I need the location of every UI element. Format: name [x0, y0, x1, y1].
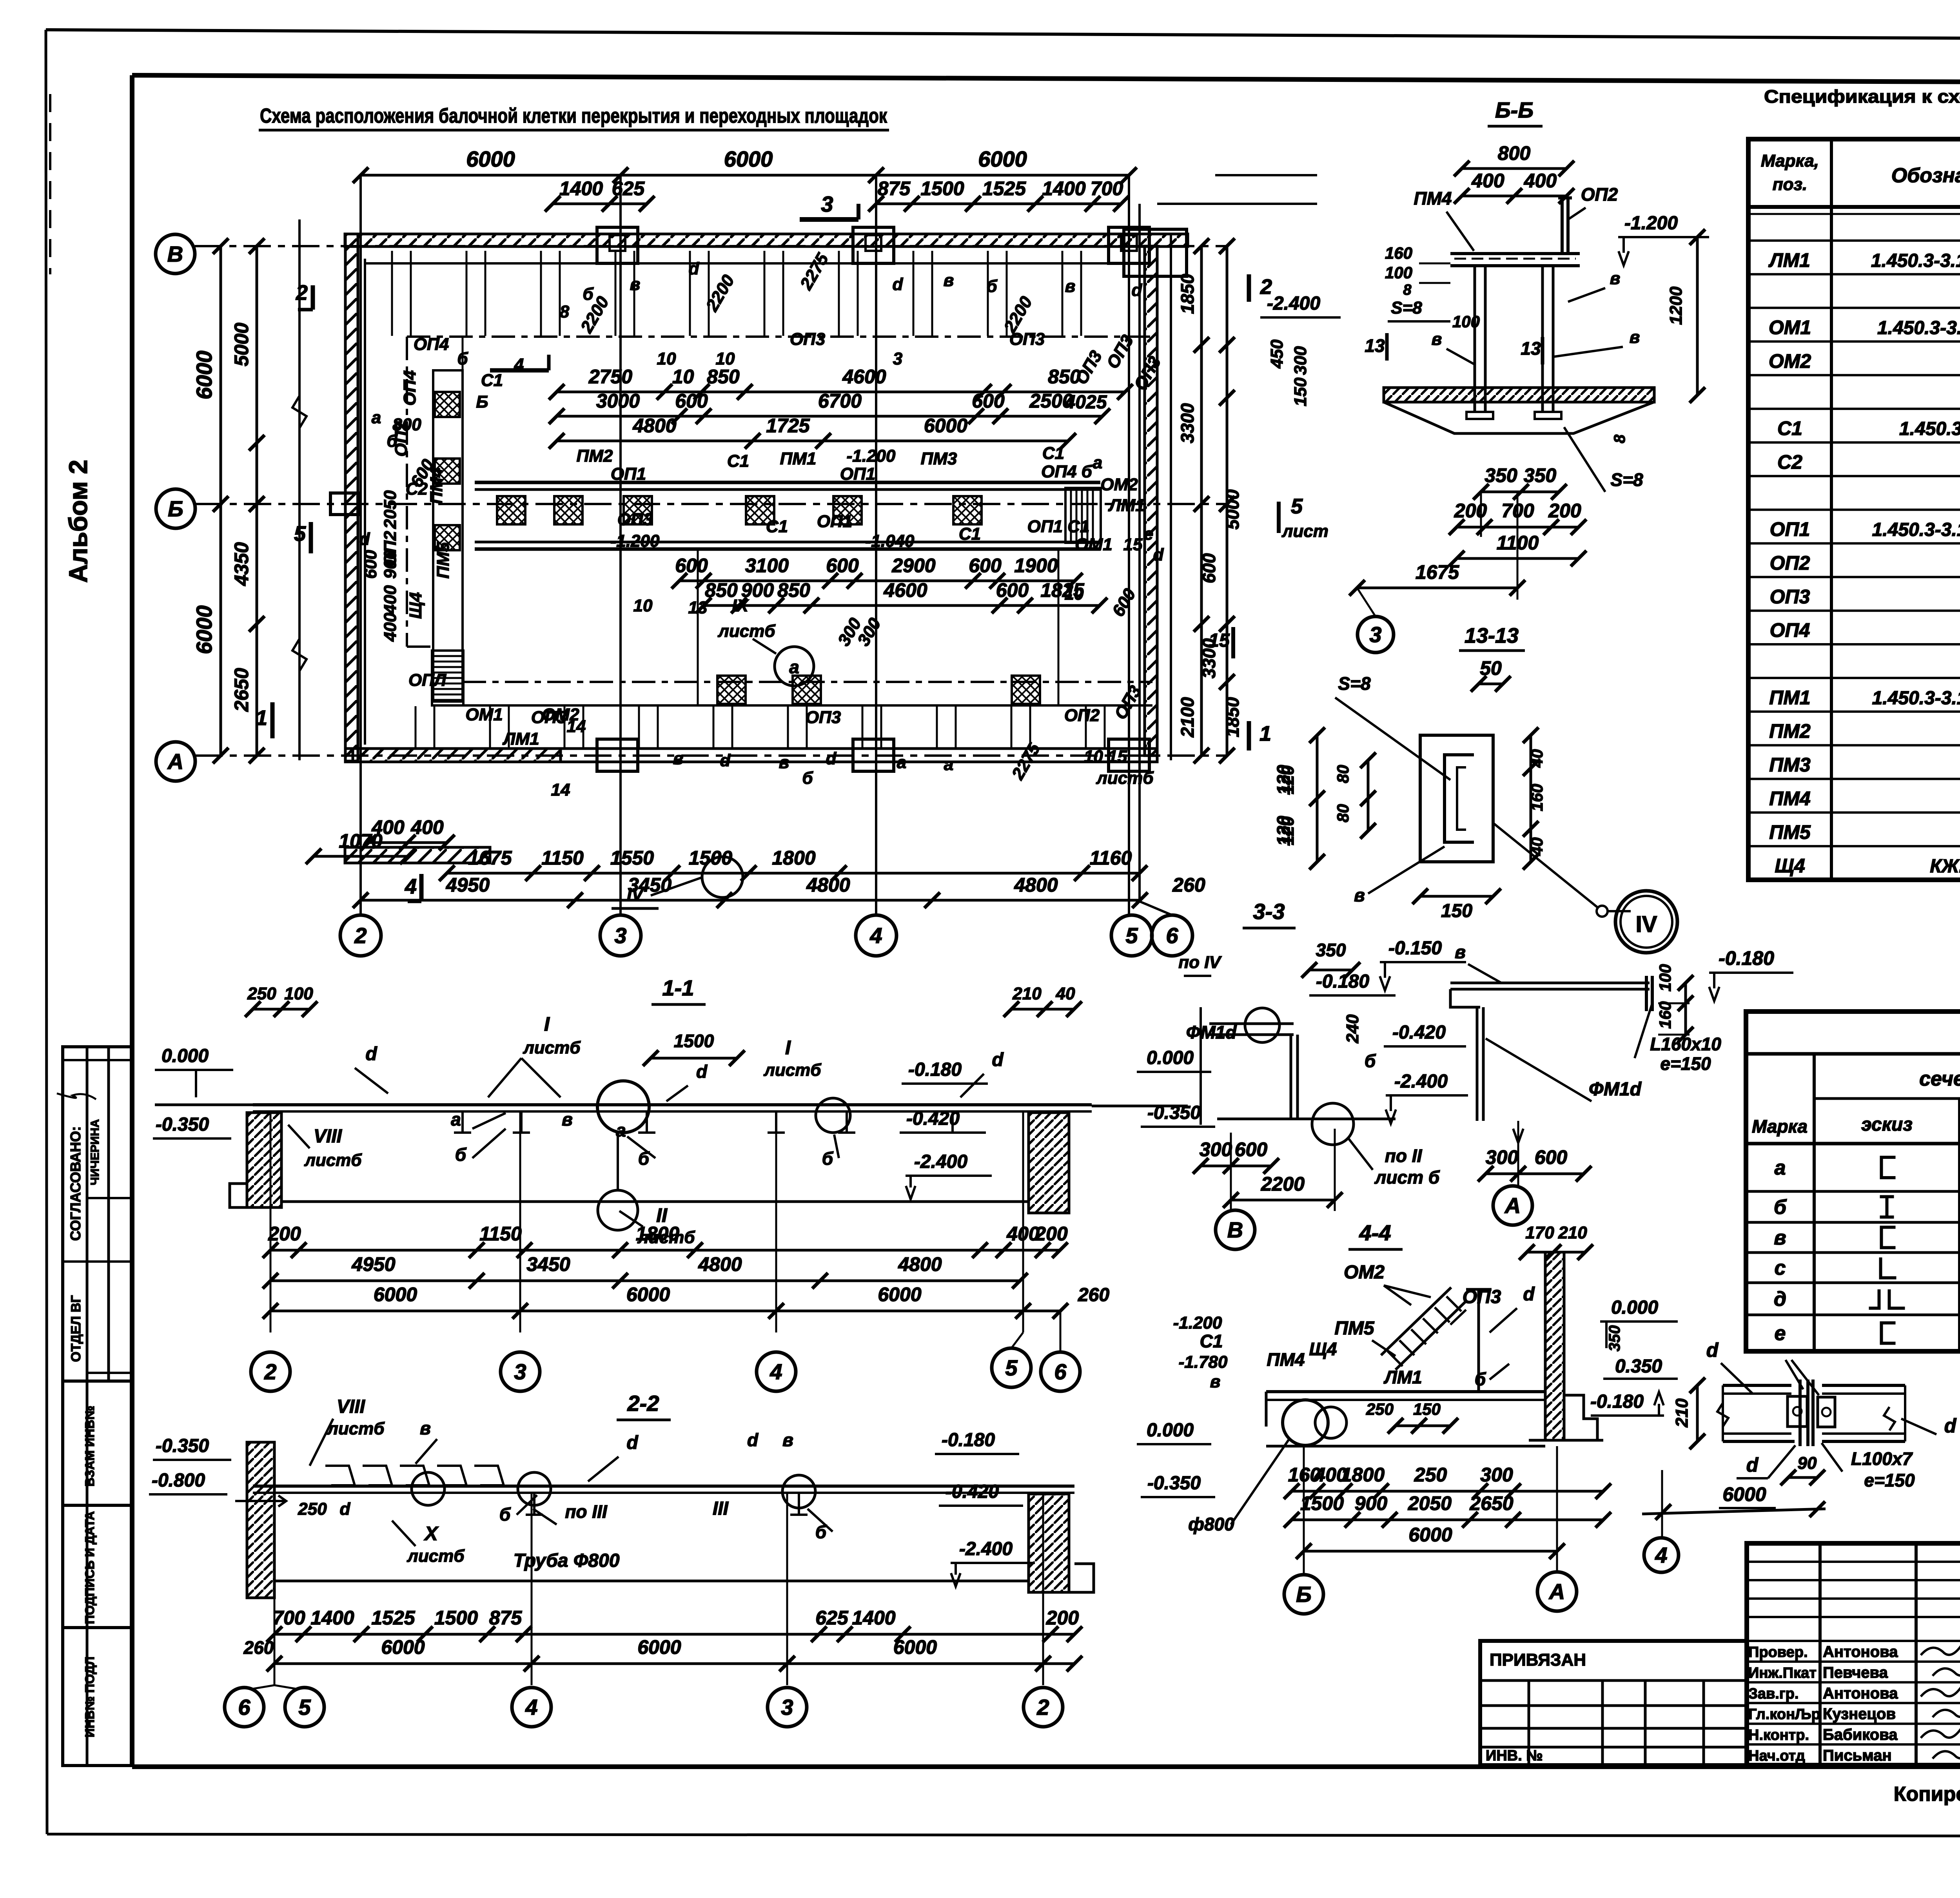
svg-text:5: 5: [1125, 923, 1138, 948]
section 1-1 detail circles: [597, 1081, 649, 1133]
svg-text:6000: 6000: [192, 351, 216, 400]
svg-text:2: 2: [264, 1360, 276, 1384]
svg-text:1.450.3-3.1 2.1.1.0.0-13: 1.450.3-3.1 2.1.1.0.0-13: [1872, 688, 1960, 709]
plan bottom axis circle 5: [1111, 915, 1152, 956]
svg-text:в: в: [1610, 269, 1621, 288]
plan vertical axis 5: [1128, 175, 1130, 915]
svg-text:250: 250: [298, 1499, 327, 1519]
svg-text:е: е: [1144, 524, 1153, 544]
svg-text:е: е: [1775, 1322, 1786, 1345]
detail IV circle: [1615, 891, 1677, 953]
svg-text:Марка: Марка: [1752, 1116, 1808, 1137]
svg-text:5: 5: [298, 1695, 311, 1720]
svg-text:150: 150: [1441, 901, 1472, 921]
svg-text:d: d: [689, 259, 700, 278]
plan section mark 4 bottom: [419, 874, 424, 901]
svg-text:1500: 1500: [434, 1607, 478, 1629]
svg-text:4600: 4600: [842, 366, 886, 388]
plan bottom wall: [345, 749, 1157, 762]
svg-text:d: d: [1523, 1284, 1535, 1305]
detail 13-13 dim 50: [1479, 683, 1503, 685]
svg-text:I: I: [544, 1013, 550, 1035]
svg-text:ОМ1: ОМ1: [1769, 317, 1811, 339]
svg-text:-0.180: -0.180: [1316, 971, 1369, 992]
svg-text:Гл.конЉр: Гл.конЉр: [1748, 1706, 1820, 1723]
svg-text:ПМ2: ПМ2: [577, 446, 613, 466]
section B-B axis circle 3: [1357, 616, 1394, 653]
svg-text:600: 600: [972, 390, 1005, 412]
plan inner dim row1: [557, 391, 1125, 393]
svg-text:4350: 4350: [230, 542, 252, 586]
svg-text:Антонова: Антонова: [1823, 1685, 1898, 1702]
svg-text:6000: 6000: [381, 1636, 425, 1658]
svg-text:1400: 1400: [310, 1607, 354, 1629]
svg-text:1.450.3-3.1 4.1.21.0-09: 1.450.3-3.1 4.1.21.0-09: [1877, 318, 1960, 339]
svg-text:6000: 6000: [1408, 1524, 1452, 1546]
svg-text:а: а: [451, 1109, 461, 1129]
svg-text:Копировал: Каршунова.: Копировал: Каршунова.: [1894, 1783, 1960, 1806]
plan left break line: [298, 219, 301, 760]
svg-text:Н.контр.: Н.контр.: [1748, 1727, 1809, 1744]
svg-text:80: 80: [1334, 765, 1352, 783]
svg-text:3: 3: [781, 1695, 793, 1720]
svg-text:6000: 6000: [724, 147, 773, 171]
svg-text:300: 300: [1486, 1146, 1519, 1168]
section B-B posts: [1474, 266, 1476, 412]
svg-text:4800: 4800: [806, 874, 850, 896]
svg-text:600: 600: [675, 390, 708, 412]
svg-text:4950: 4950: [351, 1253, 395, 1275]
svg-text:100: 100: [1656, 964, 1674, 992]
svg-text:120: 120: [1278, 765, 1298, 794]
section B-B dims bottom: [1481, 491, 1559, 493]
svg-text:-0.150: -0.150: [1388, 938, 1442, 959]
svg-text:ОМ1: ОМ1: [1075, 535, 1112, 554]
detail IV leader: [1493, 823, 1597, 907]
svg-text:6: 6: [238, 1695, 250, 1720]
svg-text:в: в: [1432, 330, 1442, 349]
svg-text:13: 13: [1365, 335, 1385, 356]
svg-text:листб: листб: [1096, 769, 1154, 788]
plan bottom strip joists: [415, 706, 417, 748]
section 1-1 axis lines: [270, 1113, 272, 1332]
vedomost table outer: [1746, 1012, 1960, 1351]
plan section mark 5 left: [309, 522, 313, 553]
svg-text:100: 100: [1385, 263, 1412, 282]
svg-text:С1: С1: [1777, 417, 1802, 439]
svg-text:e=150: e=150: [1864, 1470, 1915, 1490]
svg-text:350: 350: [1606, 1325, 1623, 1352]
svg-text:625: 625: [815, 1607, 849, 1629]
svg-text:13: 13: [688, 598, 708, 617]
svg-text:Спецификация к схеме расположе: Спецификация к схеме расположения балочн…: [1764, 86, 1960, 107]
svg-text:1400: 1400: [852, 1607, 895, 1629]
plan bottom chain: [361, 899, 1140, 902]
svg-text:3: 3: [614, 923, 626, 948]
svg-text:а: а: [616, 1120, 626, 1140]
plan left dim col outer: [220, 246, 222, 756]
svg-text:Щ4: Щ4: [1775, 855, 1805, 877]
plan top strip beam line: [365, 262, 1145, 265]
section 2-2 plates: [325, 1466, 355, 1485]
plan inner dim row3: [557, 440, 1068, 442]
plan right dim col: [1200, 246, 1203, 756]
svg-text:ОТДЕЛ ВГ: ОТДЕЛ ВГ: [69, 1295, 83, 1362]
svg-text:S=8: S=8: [1610, 470, 1643, 490]
svg-text:210: 210: [1558, 1223, 1587, 1242]
svg-text:-1.780: -1.780: [1179, 1352, 1228, 1372]
svg-text:в: в: [1065, 277, 1076, 296]
svg-text:ЛМ1: ЛМ1: [502, 729, 539, 749]
plan axis circle B: [156, 489, 195, 528]
section 4-4 post: [1477, 1289, 1480, 1392]
detail III axis 4: [1661, 1470, 1663, 1539]
svg-text:10: 10: [657, 349, 676, 368]
svg-text:0.000: 0.000: [1611, 1297, 1658, 1318]
plan inner dim row2: [557, 415, 1102, 418]
svg-text:б: б: [822, 1148, 834, 1169]
svg-text:0.350: 0.350: [1615, 1356, 1662, 1377]
svg-text:поз.: поз.: [1773, 175, 1807, 194]
svg-text:4800: 4800: [632, 415, 676, 437]
svg-text:50: 50: [1480, 657, 1502, 679]
svg-text:б: б: [1475, 1369, 1486, 1389]
section 4-4 axis circles: [1303, 1446, 1305, 1575]
svg-text:13: 13: [1521, 338, 1541, 359]
svg-text:240: 240: [1343, 1014, 1362, 1044]
svg-text:-1.200: -1.200: [1173, 1313, 1222, 1332]
svg-text:Щ4: Щ4: [1309, 1339, 1337, 1359]
svg-text:1.450.3-3.1 1-2.1.0.0-03: 1.450.3-3.1 1-2.1.0.0-03: [1871, 250, 1960, 271]
svg-text:1200: 1200: [1666, 286, 1686, 325]
section 3-3 dims: [1201, 1165, 1271, 1167]
svg-text:3: 3: [514, 1360, 526, 1384]
svg-text:6000: 6000: [626, 1283, 670, 1305]
svg-text:d: d: [826, 749, 837, 768]
plan axis circle V: [156, 234, 195, 274]
svg-text:ПМ3: ПМ3: [1769, 754, 1811, 776]
svg-text:лист: лист: [1281, 522, 1328, 541]
plan upper room fence line: [407, 335, 1157, 338]
svg-text:ОП3: ОП3: [790, 330, 825, 349]
svg-text:а: а: [1775, 1157, 1786, 1179]
svg-text:350: 350: [1524, 464, 1557, 486]
section 3-3 beams: [1209, 1022, 1294, 1025]
svg-text:3: 3: [821, 192, 833, 216]
section 4-4 stair: [1381, 1287, 1451, 1355]
svg-text:листб: листб: [327, 1419, 385, 1438]
svg-text:ОП4 б: ОП4 б: [1041, 462, 1093, 481]
svg-text:ВЗАМ ИНВ№: ВЗАМ ИНВ№: [83, 1406, 97, 1486]
svg-text:ПОДПИСЬ И ДАТА: ПОДПИСЬ И ДАТА: [83, 1511, 97, 1624]
svg-text:-0.350: -0.350: [156, 1436, 209, 1456]
svg-text:-1.200: -1.200: [847, 446, 896, 466]
svg-text:875: 875: [878, 178, 911, 199]
svg-text:IV: IV: [627, 885, 644, 904]
svg-text:ОПЛ: ОПЛ: [408, 671, 446, 690]
svg-text:д: д: [1774, 1288, 1786, 1311]
svg-text:d: d: [1746, 1454, 1759, 1476]
svg-text:лист б: лист б: [1374, 1167, 1440, 1187]
svg-text:А: А: [1548, 1579, 1565, 1604]
svg-text:ПМ1: ПМ1: [780, 449, 817, 468]
plan label IX circle: [775, 647, 814, 686]
svg-text:250: 250: [1414, 1464, 1447, 1486]
svg-text:б: б: [1774, 1196, 1787, 1219]
svg-text:ОП2: ОП2: [1770, 552, 1810, 574]
svg-text:б: б: [802, 769, 813, 788]
svg-text:3: 3: [893, 349, 902, 368]
plan left dim col inner: [256, 246, 258, 756]
svg-text:ОП3: ОП3: [1770, 586, 1810, 607]
svg-text:VIII: VIII: [314, 1126, 343, 1147]
svg-text:8: 8: [560, 302, 570, 321]
svg-text:С1: С1: [1200, 1331, 1223, 1351]
svg-text:ОП1: ОП1: [817, 512, 852, 531]
plan section mark 3 top: [800, 217, 858, 222]
svg-text:4800: 4800: [1014, 874, 1058, 896]
sheet outer border: [46, 30, 1960, 41]
svg-text:-2.400: -2.400: [1394, 1071, 1448, 1092]
plan bottom axis circle 3: [600, 915, 641, 956]
detail FM1d column: [1476, 1007, 1479, 1121]
svg-text:6000: 6000: [637, 1636, 681, 1658]
section 2-2 floor line: [274, 1580, 1029, 1583]
svg-text:6000: 6000: [878, 1283, 921, 1305]
svg-text:а: а: [897, 753, 906, 772]
svg-text:2: 2: [1036, 1695, 1049, 1720]
section 2-2 hangers: [533, 1493, 535, 1515]
svg-text:4: 4: [1655, 1543, 1667, 1568]
svg-text:4800: 4800: [698, 1253, 742, 1275]
svg-text:300: 300: [1291, 346, 1310, 375]
svg-text:80: 80: [1334, 804, 1352, 823]
svg-text:10: 10: [1065, 584, 1084, 604]
plan walkway band top edge: [475, 481, 1100, 484]
svg-text:1525: 1525: [982, 178, 1026, 199]
svg-text:170: 170: [1525, 1223, 1554, 1242]
plan vertical axis 4: [875, 175, 877, 915]
svg-text:e=150: e=150: [1660, 1053, 1711, 1074]
plan bottom axis circle 2: [340, 915, 381, 956]
svg-text:Схема расположения балочной кл: Схема расположения балочной клетки перек…: [260, 105, 887, 127]
svg-text:3450: 3450: [526, 1253, 570, 1275]
svg-text:d: d: [340, 1499, 351, 1519]
detail III left beam: [1723, 1384, 1791, 1387]
svg-text:6000: 6000: [466, 147, 515, 171]
svg-text:40: 40: [1056, 984, 1075, 1003]
svg-text:2100: 2100: [1177, 697, 1198, 738]
svg-text:в: в: [562, 1109, 573, 1129]
svg-text:600: 600: [361, 550, 380, 579]
svg-text:а: а: [944, 755, 953, 774]
plan stair LM1 left: [432, 651, 463, 705]
svg-text:150: 150: [1291, 377, 1310, 406]
detail FM1d axis circle A: [1493, 1186, 1532, 1225]
plan lower walkway line: [463, 681, 1152, 683]
svg-text:ПМ5: ПМ5: [434, 542, 453, 578]
svg-text:ИНВ№ ПОДЛ: ИНВ№ ПОДЛ: [83, 1657, 97, 1738]
svg-text:600: 600: [996, 579, 1029, 601]
svg-text:б: б: [387, 431, 398, 451]
svg-text:L160x10: L160x10: [1650, 1034, 1721, 1054]
sheet inner frame: [132, 75, 1960, 84]
svg-text:260: 260: [243, 1637, 274, 1658]
svg-text:ПМ4: ПМ4: [1769, 787, 1810, 809]
svg-text:-0.420: -0.420: [946, 1481, 999, 1502]
svg-text:0.000: 0.000: [1147, 1048, 1194, 1068]
svg-text:-0.350: -0.350: [156, 1114, 209, 1135]
detail 13-13 channel: [1445, 755, 1474, 842]
svg-text:2050: 2050: [1408, 1492, 1452, 1514]
plan right side marks: [1247, 274, 1251, 302]
svg-text:d: d: [893, 275, 904, 294]
section 2-2 beam: [253, 1485, 1074, 1488]
svg-text:ОП1: ОП1: [840, 464, 875, 484]
svg-text:350: 350: [1316, 940, 1346, 960]
svg-text:ПРИВЯЗАН: ПРИВЯЗАН: [1490, 1650, 1586, 1670]
svg-text:260: 260: [1078, 1285, 1109, 1305]
svg-text:по II: по II: [1385, 1146, 1423, 1166]
svg-text:875: 875: [489, 1607, 523, 1629]
svg-text:3300: 3300: [1177, 403, 1198, 443]
vedomost rows: [1746, 1190, 1960, 1193]
svg-text:150: 150: [1413, 1400, 1441, 1418]
svg-text:600: 600: [1199, 553, 1219, 583]
svg-text:ОП4: ОП4: [414, 335, 449, 354]
section B-B post OP2: [1561, 198, 1564, 254]
svg-text:3-3: 3-3: [1253, 899, 1285, 924]
svg-text:листб: листб: [304, 1151, 362, 1170]
svg-text:ФМ1d: ФМ1d: [1186, 1022, 1237, 1042]
svg-text:10: 10: [672, 366, 694, 388]
svg-text:2650: 2650: [230, 668, 252, 712]
svg-text:600: 600: [826, 555, 859, 576]
svg-text:-0.180: -0.180: [908, 1059, 962, 1080]
svg-text:15: 15: [1123, 535, 1143, 554]
svg-text:ПМ4: ПМ4: [1267, 1349, 1305, 1370]
svg-text:800: 800: [1498, 142, 1531, 164]
svg-text:3000: 3000: [596, 390, 640, 412]
svg-text:Бабикова: Бабикова: [1823, 1726, 1898, 1744]
svg-text:ОП3: ОП3: [617, 510, 653, 529]
svg-text:d: d: [359, 529, 370, 549]
plan walkway platforms crosshatch: [497, 496, 525, 524]
svg-text:3: 3: [1369, 622, 1381, 647]
svg-text:2750: 2750: [588, 366, 632, 388]
plan left wall: [345, 234, 358, 761]
svg-text:в: в: [779, 753, 789, 772]
svg-text:850: 850: [707, 366, 740, 388]
svg-text:210: 210: [1672, 1398, 1691, 1428]
svg-text:450: 450: [1267, 339, 1287, 369]
plan axis circle A: [156, 742, 195, 781]
svg-text:Инж.Пкат: Инж.Пкат: [1748, 1665, 1817, 1681]
svg-text:1150: 1150: [541, 847, 584, 869]
svg-text:1.450.3-3.1 5.1.0.1.0-08: 1.450.3-3.1 5.1.0.1.0-08: [1872, 520, 1960, 540]
plan vertical axis 6: [1138, 204, 1141, 901]
plan axis line V: [195, 245, 1227, 247]
svg-text:4: 4: [869, 923, 882, 948]
section 2-2 detail circles: [412, 1472, 445, 1505]
svg-text:2900: 2900: [891, 555, 935, 576]
svg-text:I: I: [785, 1037, 791, 1059]
svg-text:ПМ4: ПМ4: [1414, 188, 1452, 208]
svg-text:ЛМ1: ЛМ1: [1768, 249, 1810, 271]
svg-text:4: 4: [405, 875, 417, 898]
svg-text:ПМ1: ПМ1: [1769, 687, 1810, 709]
svg-text:d: d: [1132, 281, 1143, 300]
plan top strip joists: [391, 251, 393, 336]
svg-text:В: В: [1227, 1218, 1243, 1242]
svg-text:ОМ2: ОМ2: [1100, 475, 1138, 494]
svg-text:1400: 1400: [559, 178, 603, 199]
svg-text:8: 8: [1611, 434, 1628, 443]
section 1-1 axis circles: [251, 1352, 290, 1391]
svg-text:2: 2: [354, 923, 367, 948]
plan column marks top wall: [597, 227, 638, 263]
svg-text:-0.180: -0.180: [1719, 947, 1774, 969]
svg-text:600: 600: [969, 555, 1002, 576]
svg-text:d: d: [696, 1061, 708, 1082]
svg-text:С1: С1: [1042, 444, 1064, 463]
svg-text:d: d: [747, 1430, 759, 1450]
plan inner dim row5 low: [704, 604, 1100, 607]
svg-text:-0.420: -0.420: [906, 1108, 960, 1129]
svg-text:в: в: [1455, 942, 1466, 962]
plan corner column top right: [1124, 229, 1187, 276]
svg-text:10 15: 10 15: [1084, 747, 1127, 766]
svg-text:1070: 1070: [339, 830, 382, 852]
section B-B pit: [1384, 402, 1654, 433]
svg-text:900: 900: [381, 550, 400, 579]
plan column marks bottom wall: [597, 739, 638, 771]
detail FM1d dim bottom: [1486, 1173, 1584, 1175]
svg-text:по III: по III: [565, 1501, 608, 1522]
svg-text:15: 15: [1209, 630, 1230, 651]
svg-text:Письман: Письман: [1823, 1747, 1892, 1764]
plan mid room joists: [620, 550, 622, 705]
svg-text:Певчева: Певчева: [1823, 1664, 1888, 1681]
svg-text:4600: 4600: [883, 579, 927, 601]
svg-text:1675: 1675: [468, 847, 512, 869]
plan label IV circle: [702, 857, 743, 897]
svg-text:700: 700: [1091, 178, 1123, 199]
svg-text:600: 600: [675, 555, 708, 576]
svg-text:С1: С1: [766, 517, 788, 536]
svg-text:5: 5: [294, 522, 306, 546]
svg-text:в: в: [1774, 1227, 1786, 1249]
svg-text:0.000: 0.000: [162, 1046, 209, 1066]
svg-text:ОП2: ОП2: [1064, 706, 1100, 725]
section B-B platform: [1450, 252, 1580, 255]
svg-text:в: в: [944, 271, 954, 290]
left dashed margin line: [49, 94, 51, 274]
svg-text:Кузнецов: Кузнецов: [1823, 1706, 1896, 1723]
svg-text:в: в: [673, 749, 684, 768]
svg-text:Антонова: Антонова: [1823, 1643, 1898, 1661]
svg-text:1400: 1400: [1042, 178, 1085, 199]
plan axis line A: [195, 754, 1227, 757]
svg-text:160: 160: [1656, 1001, 1674, 1029]
svg-text:350: 350: [1485, 464, 1517, 486]
svg-text:8: 8: [1403, 282, 1412, 298]
section 4-4 pipe: [1283, 1400, 1328, 1445]
svg-text:90: 90: [1798, 1454, 1817, 1473]
svg-text:А: А: [167, 749, 183, 774]
svg-text:5: 5: [1005, 1356, 1018, 1380]
svg-text:0.000: 0.000: [1147, 1420, 1194, 1441]
